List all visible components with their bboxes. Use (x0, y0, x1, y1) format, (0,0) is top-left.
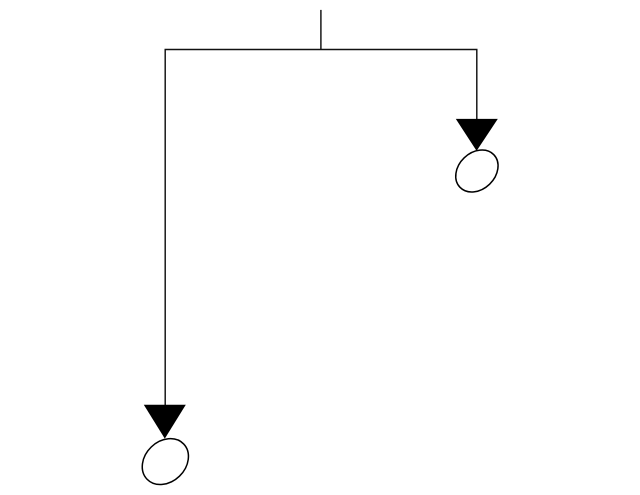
root stub wire (320, 10, 322, 50)
right branch wire (476, 50, 478, 121)
left branch wire (164, 50, 166, 407)
horizontal wire (165, 49, 478, 51)
left arrowhead (144, 405, 186, 439)
right node ellipse (447, 142, 506, 201)
right arrowhead (456, 119, 498, 151)
left node ellipse (133, 429, 198, 493)
